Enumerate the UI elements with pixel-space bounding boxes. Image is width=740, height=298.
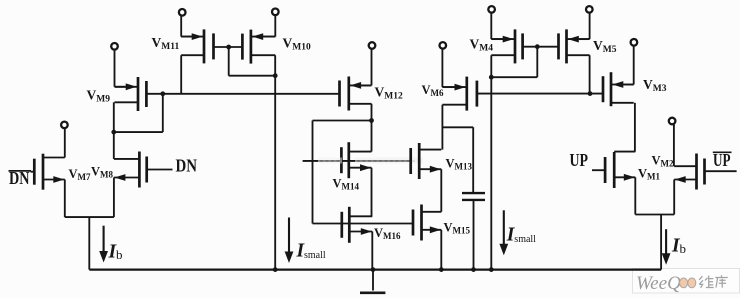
label Ib (left) xyxy=(108,242,123,263)
label UP-bar input xyxy=(713,150,732,170)
transistor VM5 (PMOS) xyxy=(559,29,590,63)
wire tail down to rail (left) xyxy=(88,217,90,270)
power terminal above VM7 drain xyxy=(61,122,68,129)
wire VM4 gate to VM5 gate xyxy=(523,46,559,48)
label VM7 xyxy=(69,167,92,182)
junction gates VM11/VM10 xyxy=(226,45,231,50)
wire UP to VM1 gate xyxy=(592,169,605,171)
bottom rail wire xyxy=(89,268,661,270)
label VM13 xyxy=(446,157,473,172)
power terminal above VM4 xyxy=(488,6,495,13)
wire VM3 source to terminal xyxy=(622,45,634,84)
current arrow Ib (left) xyxy=(99,226,108,263)
svg-text:VM16: VM16 xyxy=(374,226,401,241)
junction VM4 drain wire at rail xyxy=(489,267,494,272)
junction capacitor at rail xyxy=(471,267,476,272)
label VM11 xyxy=(152,35,180,52)
transistor VM11 (PMOS) xyxy=(181,29,213,63)
current arrow Ismall (left) xyxy=(285,218,294,264)
junction VM12 drain node xyxy=(369,118,374,123)
junction VM9 gate xyxy=(160,91,165,96)
wire VM10 source to terminal xyxy=(262,15,275,37)
wire VM11 gate to VM10 gate xyxy=(214,46,243,48)
svg-text:VM10: VM10 xyxy=(283,36,311,53)
junction gates VM4/VM5 xyxy=(535,44,540,49)
wire VM6 drain branch to capacitor xyxy=(442,127,473,192)
wire gates junction down to VM4 drain node xyxy=(491,47,537,77)
label VM6 xyxy=(422,83,445,98)
wire VM10 drain down to bottom rail xyxy=(274,55,276,269)
wire VM7 source down to tail xyxy=(64,180,66,218)
svg-text:VM1: VM1 xyxy=(638,167,661,182)
wire VM9 source to terminal xyxy=(115,49,129,87)
svg-text:b: b xyxy=(116,247,123,262)
label Ib (right) xyxy=(671,236,686,257)
svg-text:small: small xyxy=(514,234,536,245)
watermark WeeQoo weiku box and text xyxy=(633,269,740,295)
wire VM12 drain node to VM16 gate branch xyxy=(313,121,372,224)
label VM14 xyxy=(333,177,360,192)
label VM12 xyxy=(375,85,403,102)
ground symbol xyxy=(360,270,385,293)
wire gates junction down to VM10 drain node xyxy=(229,47,276,76)
transistor VM4 (PMOS) xyxy=(491,29,522,63)
svg-text:b: b xyxy=(680,241,687,256)
power terminal above VM10 xyxy=(272,9,279,16)
transistor VM13 (NMOS) xyxy=(411,143,442,179)
transistor VM2 (NMOS) xyxy=(674,154,704,190)
transistor VM14 (NMOS) xyxy=(341,142,371,178)
svg-text:small: small xyxy=(304,250,326,261)
svg-text:VM11: VM11 xyxy=(152,35,180,52)
junction VM10 drain wire at rail xyxy=(273,267,278,272)
wire VM15 source down to rail xyxy=(440,230,442,270)
transistor VM10 (PMOS) xyxy=(242,30,275,64)
wire VM3 drain down to VM1 drain xyxy=(634,103,636,152)
svg-text:UP: UP xyxy=(570,150,589,170)
transistor VM9 (PMOS) xyxy=(115,77,147,111)
transistor VM3 (PMOS) xyxy=(603,72,634,106)
wire VM1 source down to tail xyxy=(634,177,636,214)
label Ismall (right) xyxy=(506,225,536,246)
wire VM9 drain down to VM8 drain xyxy=(113,102,115,159)
label VM10 xyxy=(283,36,311,53)
wire VM14 source down to VM16 drain xyxy=(371,168,373,217)
wire VM9 diode connection xyxy=(114,94,163,132)
svg-text:VM12: VM12 xyxy=(375,85,403,102)
label Ismall (left) xyxy=(296,241,326,262)
label VM1 xyxy=(638,167,661,182)
label VM8 xyxy=(91,164,114,179)
junction VM10 drain node xyxy=(273,73,278,78)
wire VM11 source to terminal xyxy=(181,15,194,36)
wire VM16 gate to VM15 gate xyxy=(313,223,414,225)
svg-text:VM13: VM13 xyxy=(446,157,473,172)
transistor VM6 (PMOS) xyxy=(442,77,477,111)
wire VM6 gate to VM3 gate bias line xyxy=(477,93,603,95)
power terminal above VM9 xyxy=(111,43,118,50)
junction VM9 drain / VM8 drain node xyxy=(111,130,116,135)
capacitor C1 xyxy=(462,193,485,200)
transistor VM15 (NMOS) xyxy=(413,205,441,241)
wire VM8 source down to tail xyxy=(113,178,115,218)
transistor VM7 (NMOS) xyxy=(34,154,65,190)
svg-text:VM15: VM15 xyxy=(444,221,471,236)
svg-text:WeeQ: WeeQ xyxy=(636,274,682,294)
wire VM12 drain down to VM14 drain xyxy=(371,104,373,152)
power terminal above VM6 xyxy=(440,42,447,49)
label VM4 xyxy=(470,37,494,54)
label VM5 xyxy=(593,38,617,55)
wire capacitor to rail xyxy=(473,200,475,270)
wire VM13 source down to VM15 drain xyxy=(440,169,442,212)
label DN input xyxy=(176,155,198,175)
output terminal above VM2 xyxy=(669,118,676,125)
junction VM5 drain on bias line xyxy=(588,91,593,96)
wire VM2 source down to tail xyxy=(673,180,675,215)
wire VM6 source to terminal xyxy=(442,48,454,87)
wire VM14 gate to VM13 gate xyxy=(303,160,411,162)
wire VM12 source to terminal xyxy=(359,48,372,85)
power terminal above VM5 xyxy=(586,6,593,13)
wire VM16 source down to rail xyxy=(371,232,373,270)
label VM2 xyxy=(652,154,675,169)
transistor VM8 (NMOS) xyxy=(114,152,147,188)
wire VM9 gate line to VM12 gate xyxy=(146,93,339,95)
wire VM4 drain down to rail xyxy=(490,55,492,269)
svg-text:DN: DN xyxy=(176,155,198,175)
junction VM4 drain node xyxy=(489,75,494,80)
wire VM1/VM2 tail bar xyxy=(635,214,674,216)
power terminal above VM12 xyxy=(369,42,376,49)
label VM9 xyxy=(87,88,111,105)
label VM3 xyxy=(643,77,667,94)
transistor VM12 (PMOS) xyxy=(340,77,372,111)
svg-text:VM2: VM2 xyxy=(652,154,675,169)
wire VM7 drain to terminal xyxy=(64,128,66,158)
transistor VM1 (NMOS) xyxy=(605,152,635,188)
power terminal above VM3 xyxy=(631,39,638,46)
wire VM7/VM8 tail bar xyxy=(65,216,114,218)
junction VM15 source at rail xyxy=(439,267,444,272)
wire VM5 source to terminal xyxy=(578,12,590,39)
scan artifact over gate line xyxy=(318,158,423,164)
label UP input xyxy=(570,150,589,170)
wire VM2 drain to terminal xyxy=(673,124,675,166)
svg-text:VM8: VM8 xyxy=(91,164,114,179)
wire VM5 drain down to bias line xyxy=(589,55,591,93)
label VM15 xyxy=(444,221,471,236)
current arrow Ismall (right) xyxy=(499,210,508,255)
label DN-bar input xyxy=(9,168,32,188)
wire VM2 gate lead xyxy=(705,170,737,172)
label VM16 xyxy=(374,226,401,241)
svg-text:VM3: VM3 xyxy=(643,77,667,94)
wire VM4 source to terminal xyxy=(491,12,504,39)
current arrow Ib (right) xyxy=(662,229,671,265)
wire VM11 drain down to VM9 gate line xyxy=(180,55,182,94)
wire VM6 drain down to VM13 drain xyxy=(441,105,443,150)
svg-text:VM4: VM4 xyxy=(470,37,494,54)
svg-text:VM6: VM6 xyxy=(422,83,445,98)
svg-text:VM14: VM14 xyxy=(333,177,360,192)
transistor VM16 (NMOS) xyxy=(342,207,373,243)
svg-text:VM7: VM7 xyxy=(69,167,92,182)
wire DN-bar to VM7 gate xyxy=(31,171,35,173)
wire tail down to rail (right) xyxy=(660,215,662,270)
wire DN to VM8 gate xyxy=(147,169,173,171)
svg-text:VM5: VM5 xyxy=(593,38,617,55)
junction VM16 source at rail xyxy=(371,267,376,272)
power terminal above VM11 xyxy=(179,9,186,16)
svg-text:VM9: VM9 xyxy=(87,88,111,105)
